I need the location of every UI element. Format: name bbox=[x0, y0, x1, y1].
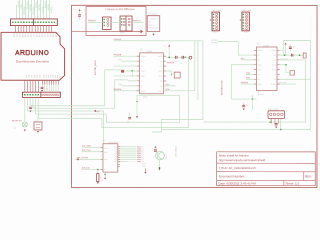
svg-text:RESET-EN: RESET-EN bbox=[12, 120, 22, 122]
svg-text:D17: D17 bbox=[32, 34, 34, 37]
svg-text:GND: GND bbox=[120, 32, 125, 34]
svg-text:PWM1A: PWM1A bbox=[114, 38, 122, 41]
svg-text:R1: R1 bbox=[100, 177, 102, 179]
svg-text:C2 47uF: C2 47uF bbox=[280, 58, 288, 60]
svg-text:S1: S1 bbox=[34, 120, 36, 122]
svg-text:GND: GND bbox=[213, 32, 218, 34]
svg-text:D15: D15 bbox=[54, 34, 56, 37]
svg-text:DIR_SER: DIR_SER bbox=[82, 146, 92, 148]
svg-text:Document Number:: Document Number: bbox=[219, 174, 245, 178]
svg-text:A5: A5 bbox=[58, 75, 61, 77]
svg-text:VCC1: VCC1 bbox=[158, 56, 163, 58]
svg-text:C8: C8 bbox=[246, 105, 248, 107]
svg-text:PWM0A: PWM0A bbox=[241, 81, 249, 84]
svg-text:C6: C6 bbox=[127, 121, 129, 123]
svg-text:GND: GND bbox=[103, 31, 108, 33]
svg-text:A5: A5 bbox=[38, 75, 41, 77]
svg-text:GROUND: GROUND bbox=[278, 82, 287, 84]
svg-text:GND: GND bbox=[245, 32, 250, 34]
svg-text:MOTORLATCH: MOTORLATCH bbox=[221, 79, 224, 95]
svg-text:PWM2B: PWM2B bbox=[114, 54, 122, 56]
svg-text:D18: D18 bbox=[35, 34, 37, 37]
svg-text:VCC1: VCC1 bbox=[271, 50, 276, 52]
svg-text:REV:: REV: bbox=[305, 174, 312, 178]
svg-text:D10: D10 bbox=[13, 34, 15, 37]
svg-text:D13: D13 bbox=[49, 34, 51, 37]
svg-text:PWRXX: PWRXX bbox=[167, 62, 175, 64]
svg-text:DIR_EN: DIR_EN bbox=[82, 168, 90, 170]
svg-text:C4: C4 bbox=[180, 63, 182, 65]
svg-text:D14: D14 bbox=[52, 34, 54, 37]
svg-text:PWM1B: PWM1B bbox=[88, 20, 96, 22]
svg-text:MOTOR_EN12: MOTOR_EN12 bbox=[95, 59, 97, 75]
svg-text:DIR_SERIAL: DIR_SERIAL bbox=[174, 144, 177, 157]
svg-text:DIR_CLK: DIR_CLK bbox=[82, 150, 91, 152]
svg-text:PD4/4: PD4/4 bbox=[50, 6, 53, 13]
svg-text:D19: D19 bbox=[38, 34, 40, 37]
svg-text:A4: A4 bbox=[36, 75, 39, 77]
svg-text:VCC2: VCC2 bbox=[258, 84, 263, 86]
svg-text:PWM0B: PWM0B bbox=[211, 42, 218, 44]
svg-text:3-4EN: 3-4EN bbox=[157, 91, 163, 93]
svg-text:Motor shield for Arduino: Motor shield for Arduino bbox=[219, 154, 249, 158]
svg-text:D15: D15 bbox=[26, 34, 28, 37]
svg-text:D13: D13 bbox=[21, 34, 23, 37]
svg-text:D14: D14 bbox=[24, 34, 26, 37]
svg-text:TITLE: AF_motorshield-v13: TITLE: AF_motorshield-v13 bbox=[219, 166, 256, 170]
svg-text:D11: D11 bbox=[15, 34, 17, 37]
svg-text:A0: A0 bbox=[25, 75, 28, 77]
svg-text:C10: C10 bbox=[45, 88, 48, 90]
svg-text:D10: D10 bbox=[41, 34, 43, 37]
svg-text:1-2EN: 1-2EN bbox=[141, 56, 147, 58]
svg-text:D16: D16 bbox=[29, 34, 31, 37]
svg-text:C11: C11 bbox=[32, 106, 35, 108]
svg-text:A3: A3 bbox=[33, 75, 36, 77]
svg-text:Q7: Q7 bbox=[115, 161, 117, 163]
svg-text:C1: C1 bbox=[293, 47, 295, 49]
svg-text:D12: D12 bbox=[18, 34, 20, 37]
svg-text:Q2: Q2 bbox=[13, 127, 15, 129]
svg-text:D11: D11 bbox=[43, 34, 45, 37]
svg-text:Duemilanove Decimila: Duemilanove Decimila bbox=[16, 60, 49, 64]
svg-text:1-2EN: 1-2EN bbox=[258, 50, 264, 52]
svg-text:3-4EN: 3-4EN bbox=[271, 84, 277, 86]
svg-text:VCC2: VCC2 bbox=[141, 91, 146, 93]
svg-text:PWM2A: PWM2A bbox=[114, 88, 122, 91]
svg-text:GND: GND bbox=[259, 94, 264, 96]
svg-text:Date: 6/30/2011 3:49:45 PM: Date: 6/30/2011 3:49:45 PM bbox=[218, 182, 256, 186]
svg-text:Sheet: 1/1: Sheet: 1/1 bbox=[285, 182, 299, 186]
svg-text:GND: GND bbox=[143, 96, 148, 98]
svg-text:2 Servos on R/C PPM pins: 2 Servos on R/C PPM pins bbox=[105, 8, 135, 11]
svg-text:http://www.ladyada.net/make/ms: http://www.ladyada.net/make/mshield bbox=[219, 158, 266, 162]
svg-text:PWM1A: PWM1A bbox=[133, 19, 141, 22]
svg-text:D12: D12 bbox=[46, 34, 48, 37]
